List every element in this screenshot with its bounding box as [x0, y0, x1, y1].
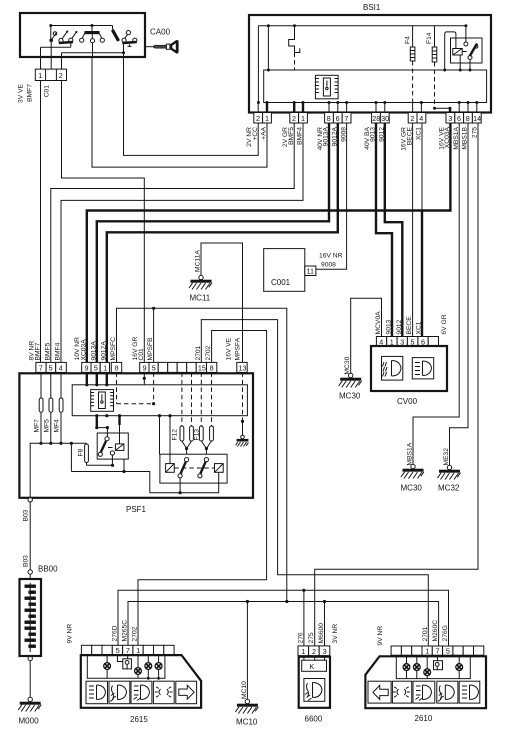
svg-text:CA00: CA00	[150, 28, 171, 37]
svg-text:BMF7: BMF7	[35, 342, 42, 360]
svg-text:3V VE: 3V VE	[18, 83, 25, 102]
svg-text:2701: 2701	[422, 626, 429, 641]
svg-text:F14: F14	[426, 32, 433, 44]
6600 pin stubs	[304, 656, 325, 661]
connector symbol in band	[315, 75, 338, 99]
fuse F12a	[180, 426, 184, 441]
2610 inner frame	[396, 656, 470, 678]
C001 pin 11	[305, 266, 316, 276]
wire CA00 to C01 pins	[41, 57, 62, 69]
svg-text:1: 1	[136, 646, 140, 655]
BSI1 terminal group 16V VE: pins 3,6,8,14	[446, 113, 481, 124]
wire 9012 BSI1 pin 30 to CV00 pin 3 (thick)	[385, 123, 403, 337]
svg-text:K: K	[310, 662, 315, 671]
svg-text:276: 276	[297, 632, 304, 643]
svg-text:MC11: MC11	[190, 294, 211, 303]
wire 9008 BSI1 pin 7 to C001 pin 11	[316, 123, 347, 269]
svg-text:276D: 276D	[112, 625, 119, 641]
wire 9012A BSI1 pin 6 to PSF1 pin 1 (thick)	[107, 123, 338, 362]
svg-text:ME32: ME32	[443, 448, 450, 466]
ground MC32	[438, 448, 461, 493]
svg-text:MPSFB: MPSFB	[147, 337, 154, 361]
svg-text:MPSFA: MPSFA	[235, 337, 242, 360]
ground M000	[18, 697, 41, 725]
2610 box	[365, 656, 486, 708]
svg-text:11: 11	[307, 267, 314, 276]
6600 terminal row pins 1,2,3	[298, 646, 330, 656]
svg-text:PSF1: PSF1	[126, 505, 147, 514]
svg-text:2610: 2610	[415, 714, 433, 723]
PSF1 empty terminals	[158, 362, 196, 372]
dashed F4 to terminal BECE	[412, 61, 414, 103]
CA00 internal lower links	[41, 42, 93, 57]
wire MPSFB branch	[153, 308, 155, 362]
svg-text:MF7: MF7	[34, 419, 41, 433]
wire drop to band	[267, 26, 269, 70]
stubs XC03A 9013A 9012A into band	[87, 372, 107, 384]
2610 aux box	[437, 655, 439, 661]
svg-text:2: 2	[59, 71, 63, 80]
svg-text:XC1: XC1	[416, 321, 423, 334]
CV00 left lamp icon (low beam)	[382, 356, 403, 380]
CV00 terminal row pins 4,1,3,5,6	[376, 337, 438, 347]
svg-text:5: 5	[94, 363, 98, 372]
svg-text:9V NR: 9V NR	[377, 626, 384, 646]
relay coil	[453, 49, 462, 56]
dashed MPSFC MPSFB links	[117, 372, 154, 403]
BSI1 terminal group 2V GR: pins 2,1	[290, 113, 308, 124]
svg-text:1: 1	[425, 647, 429, 656]
svg-text:9013: 9013	[386, 319, 393, 334]
svg-text:MC10: MC10	[236, 718, 258, 727]
svg-text:BMF4: BMF4	[55, 342, 62, 360]
2615 inner frame	[87, 655, 165, 678]
wire left inner drop	[257, 26, 259, 103]
svg-text:3V NR: 3V NR	[332, 624, 339, 644]
relay outputs	[112, 455, 124, 471]
2615 icon position lamp	[153, 681, 174, 704]
wire C01 connector to PSF1 pin 9	[62, 81, 145, 363]
relay coil feed loop	[445, 32, 456, 70]
svg-text:275: 275	[308, 632, 315, 643]
2615 box	[81, 655, 201, 708]
ground MC11	[189, 275, 212, 302]
wire +AA CA00 to BSI1	[92, 57, 267, 167]
switch contact S3 (right)	[112, 26, 137, 47]
wire F14 jog to terminal 3	[435, 107, 451, 109]
wire 9013A BSI1 pin 8 to PSF1 pin 5 (thick)	[97, 123, 329, 362]
thermal contact step symbol	[289, 26, 300, 53]
svg-text:1: 1	[103, 363, 107, 372]
2610 icon turn arrow left	[368, 681, 391, 703]
svg-text:8: 8	[327, 114, 331, 123]
svg-text:7: 7	[436, 647, 440, 656]
2615 bulb L4	[158, 655, 160, 679]
svg-text:C01: C01	[44, 85, 51, 98]
svg-text:6: 6	[336, 114, 340, 123]
svg-text:MCV0A: MCV0A	[375, 311, 382, 335]
key icon	[145, 40, 179, 54]
svg-text:MC11A: MC11A	[195, 250, 202, 272]
fuse F14	[434, 26, 436, 47]
svg-text:C01: C01	[138, 348, 145, 361]
svg-text:30: 30	[381, 114, 389, 123]
PSF1 supply bus to B03	[30, 443, 86, 499]
svg-text:6: 6	[457, 114, 461, 123]
PSF1 fuse MF4	[60, 372, 62, 398]
svg-text:2: 2	[292, 114, 296, 123]
svg-text:5: 5	[152, 363, 156, 372]
svg-text:6V GR: 6V GR	[441, 314, 448, 334]
svg-text:BMF7: BMF7	[27, 84, 34, 102]
CV00 box	[371, 346, 447, 391]
relay switch	[464, 24, 467, 27]
svg-text:F8: F8	[78, 448, 85, 456]
svg-text:9V NR: 9V NR	[67, 624, 74, 644]
switch contacts	[185, 458, 189, 462]
svg-text:276G: 276G	[442, 625, 449, 641]
svg-text:2: 2	[410, 114, 414, 123]
BSI1 inner band	[264, 70, 487, 103]
stubs to switch box	[160, 416, 171, 464]
2615 icon turn arrow	[176, 681, 197, 704]
svg-text:8: 8	[115, 363, 119, 372]
dashed links terminals to fuses F12	[182, 372, 212, 426]
connector B03 at PSF1	[28, 498, 32, 502]
svg-text:6600: 6600	[305, 715, 323, 724]
wire MBS1A BSI1 pin 6 to ground MC30	[413, 123, 459, 464]
2615 bulb L2	[137, 655, 139, 679]
BSI1 internal top bus	[258, 25, 466, 27]
PSF1 box	[19, 373, 253, 498]
wire ground net MPSFC/MPSFB to bottom bus	[117, 308, 287, 601]
wire XC1 BSI1 pin 4 to CV00 pin 6	[421, 123, 423, 211]
svg-text:MC30: MC30	[344, 356, 351, 374]
2615 icon fog lamp	[131, 681, 152, 704]
svg-text:MC30: MC30	[339, 392, 361, 401]
2615 icon cornering lamp	[109, 681, 130, 704]
CA00 internal top bus	[51, 25, 113, 27]
svg-text:7: 7	[39, 363, 43, 372]
2615 bulb L3	[147, 655, 149, 679]
fuse F4	[412, 26, 414, 47]
fuse F8	[86, 442, 88, 445]
wire BMF5 BSI1 to PSF1 pin 5	[51, 123, 294, 362]
svg-text:15: 15	[198, 363, 206, 372]
battery BB00	[20, 570, 42, 698]
wire MBS1B BSI1 pin 8 to ground MC32	[450, 123, 469, 465]
PSF1 fuse MF5	[50, 372, 52, 398]
svg-text:8: 8	[210, 363, 214, 372]
band bottom dots	[95, 414, 98, 417]
wire XC03A BSI1 pin 3 to PSF1 pin 9 (thick)	[87, 123, 451, 362]
relay K box	[451, 38, 483, 63]
svg-text:9012: 9012	[396, 319, 403, 334]
svg-text:F4: F4	[405, 36, 412, 44]
svg-text:2: 2	[256, 114, 260, 123]
svg-text:9012A: 9012A	[100, 341, 107, 361]
svg-text:9008: 9008	[321, 262, 336, 269]
internal ground of PSF1	[242, 372, 244, 421]
svg-text:MBS1A: MBS1A	[407, 442, 414, 465]
connector C01	[35, 69, 66, 80]
BSI1 terminal group 2V NR: pins 2,1	[254, 113, 272, 124]
svg-text:2: 2	[312, 647, 316, 656]
wire 2701 PSF1 pin 15 loop	[201, 320, 428, 646]
PSF1 terminal pin 13	[237, 362, 247, 372]
svg-text:2702: 2702	[132, 626, 139, 641]
dashed F14 through band	[434, 62, 436, 108]
2610 bulb R3	[426, 655, 428, 678]
svg-text:5: 5	[446, 647, 450, 656]
2615 icon low beam	[86, 681, 108, 704]
BSI1 box	[249, 15, 491, 113]
fuse pair joins	[182, 441, 192, 454]
2610 bulb R1	[406, 655, 408, 678]
svg-text:275: 275	[472, 127, 479, 138]
6600 box	[299, 657, 330, 708]
2610 icon fog lamp	[413, 681, 435, 703]
svg-text:BB00: BB00	[38, 565, 58, 574]
svg-text:8: 8	[466, 114, 470, 123]
svg-text:B03: B03	[23, 555, 30, 567]
svg-text:5: 5	[49, 363, 53, 372]
svg-text:5: 5	[116, 646, 120, 655]
svg-text:MPSFC: MPSFC	[110, 337, 117, 361]
svg-text:28: 28	[372, 114, 380, 123]
svg-text:16V NR: 16V NR	[319, 253, 343, 260]
2615 terminal row	[81, 645, 174, 655]
2610 bulb R2	[416, 655, 418, 678]
wire 2702 PSF1 pin 8 loop	[138, 331, 267, 646]
PSF1 relay box	[97, 433, 128, 459]
svg-text:2701: 2701	[195, 345, 202, 360]
svg-text:1: 1	[265, 114, 269, 123]
2610 bulb R4	[458, 655, 460, 678]
PSF1 terminal group 16V GR: pins 9,5	[140, 362, 159, 372]
BSI1 terminal group 40V NR: pins 8,6,7	[325, 113, 351, 124]
CV00 right lamp icon (high beam)	[412, 358, 433, 379]
wire B03 PSF1 to battery	[29, 502, 31, 570]
fuse F13a	[199, 426, 203, 441]
svg-text:BMF5: BMF5	[44, 342, 51, 360]
wire +CC CA00 to BSI1	[124, 57, 259, 155]
wire MPSFA PSF1 pin 13 to ground MC11	[201, 243, 243, 362]
PSF1 terminal group 8V NR: pins 7,5,4	[36, 362, 66, 372]
svg-text:16V VE: 16V VE	[226, 337, 233, 360]
wire relay to switch box	[71, 443, 218, 492]
svg-text:M265C: M265C	[122, 620, 129, 642]
wire BECE BSI1 pin 2 to CV00 pin 5	[412, 123, 414, 337]
svg-text:F12: F12	[172, 429, 179, 441]
svg-text:4: 4	[419, 114, 423, 123]
PSF1 inner band	[72, 385, 247, 416]
2615 aux box	[127, 655, 129, 659]
BSI1 terminal group 16V GR: pins 2,4	[408, 113, 426, 124]
6600 fog lamp icon	[304, 679, 325, 702]
svg-text:MC30: MC30	[401, 484, 423, 493]
2610 terminal row	[391, 646, 484, 656]
wire 276 to 6600 pin 1	[303, 590, 305, 646]
6600 K box	[302, 660, 327, 671]
wire M6600 to 6600 pin 3	[324, 602, 326, 646]
2615 bulb L1	[106, 655, 108, 679]
PSF1 switch box	[160, 454, 227, 483]
svg-text:M6600: M6600	[318, 623, 325, 644]
wire 275 BSI1 pin 14 to 6600 pin 2	[315, 123, 478, 646]
PSF1 terminal group 10V NR: pins 9,5,1,8	[82, 362, 122, 372]
switch contact S1 (left)	[49, 26, 77, 44]
band bottom junction dots and terminal stubs	[257, 101, 260, 104]
svg-text:MC32: MC32	[438, 484, 460, 493]
BSI1 terminal group 40V BA: pins 28,30	[372, 113, 390, 124]
2610 icon low beam	[459, 681, 480, 703]
svg-text:1: 1	[301, 647, 305, 656]
wire 276 bus	[118, 590, 449, 646]
svg-text:3: 3	[448, 114, 452, 123]
svg-text:C001: C001	[271, 278, 291, 287]
svg-text:14: 14	[473, 114, 481, 123]
connector C001 box	[264, 249, 305, 292]
ignition switch CA00 box	[20, 13, 145, 57]
ground MC30 lower	[401, 442, 425, 492]
svg-text:2702: 2702	[205, 345, 212, 360]
relay feed stubs	[96, 416, 98, 428]
svg-text:B03: B03	[23, 509, 30, 521]
svg-text:9: 9	[143, 363, 147, 372]
svg-text:XC03A: XC03A	[80, 339, 87, 361]
wire MCV0A CV00 pin 4 to ground MC30	[351, 298, 382, 373]
PSF1 fuse MF7	[40, 372, 42, 398]
2610 icon cornering lamp	[437, 681, 458, 703]
switch output	[180, 472, 219, 492]
svg-text:1: 1	[301, 114, 305, 123]
fuse F12b	[190, 426, 194, 441]
ground MC30 at CV00	[339, 373, 362, 400]
relay outputs to band	[460, 55, 470, 70]
stub C01 into band	[143, 372, 145, 384]
wire BMF4 BSI1 to PSF1 pin 4	[61, 123, 303, 362]
wire MC10 drop	[246, 602, 248, 700]
wire 9013 BSI1 pin 28 to CV00 pin 1 (thick)	[376, 123, 392, 337]
svg-text:1: 1	[38, 71, 42, 80]
2610 icon position lamp	[392, 681, 411, 703]
dashed link step to band	[294, 53, 296, 71]
svg-text:7: 7	[344, 114, 348, 123]
svg-text:MC10: MC10	[241, 681, 248, 699]
svg-text:13: 13	[239, 363, 247, 372]
svg-text:4: 4	[59, 363, 63, 372]
svg-text:M000: M000	[19, 717, 40, 726]
ground bus M265C M6600 M260C	[128, 602, 439, 647]
svg-text:9: 9	[85, 363, 89, 372]
wire BMF7 connector to PSF1 pin 7	[40, 81, 42, 363]
svg-text:7: 7	[126, 646, 130, 655]
svg-text:CV00: CV00	[397, 397, 418, 406]
svg-text:2615: 2615	[130, 715, 148, 724]
fuse F13b	[210, 426, 214, 441]
svg-text:BSI1: BSI1	[363, 3, 381, 12]
ground MC10	[235, 699, 258, 726]
svg-text:BECE: BECE	[406, 316, 413, 335]
svg-text:MF5: MF5	[43, 419, 50, 433]
svg-text:9013A: 9013A	[90, 341, 97, 361]
switch contact S2 (middle)	[80, 26, 105, 43]
svg-text:3: 3	[323, 647, 327, 656]
PSF1 terminal pins 15,8	[196, 362, 217, 372]
connector symbol in PSF1 band	[91, 390, 114, 412]
svg-text:MF4: MF4	[54, 419, 61, 433]
svg-text:M260C: M260C	[432, 620, 439, 642]
